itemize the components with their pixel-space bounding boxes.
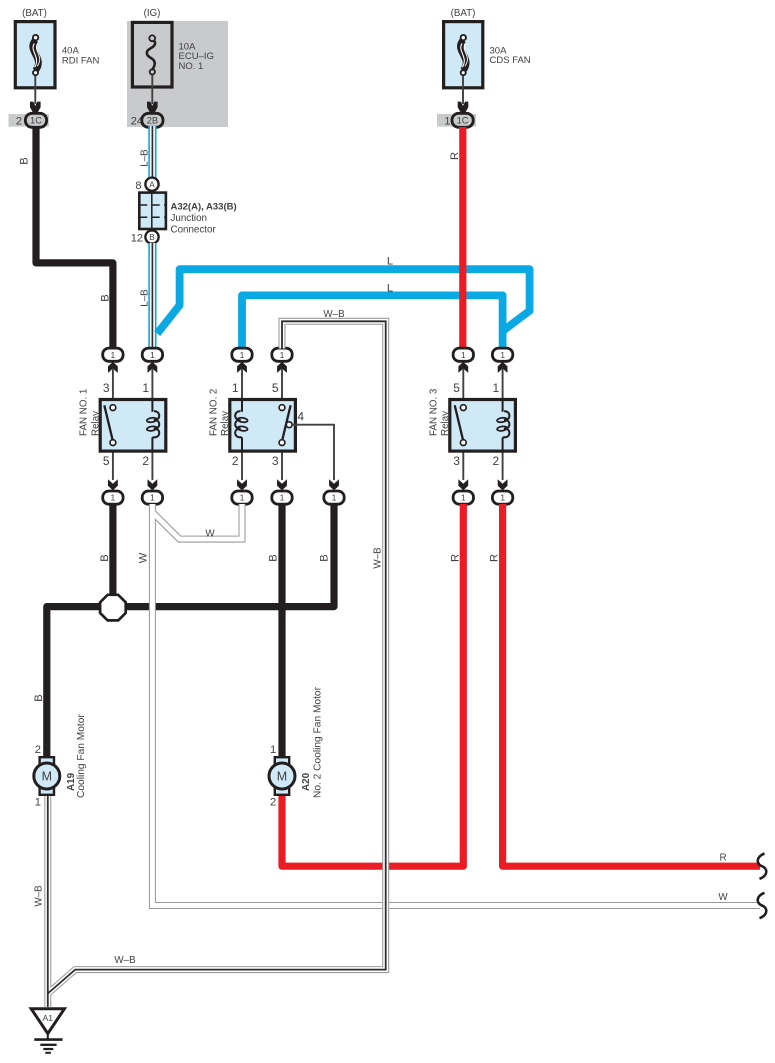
svg-text:CDS FAN: CDS FAN bbox=[490, 55, 531, 66]
svg-text:L: L bbox=[387, 282, 393, 294]
connector 1 below relay2 pin3 bbox=[272, 479, 292, 504]
svg-text:W: W bbox=[205, 529, 215, 540]
svg-text:R: R bbox=[449, 152, 461, 160]
connector 1 above relay2 pin1 bbox=[232, 348, 252, 373]
svg-text:1: 1 bbox=[270, 744, 276, 756]
wire R from CDS FAN connector 1C to FAN NO.3 relay pin 5 bbox=[449, 127, 463, 349]
wire W-B from motor A19 pin 1 to ground A1, joined by W-B loop from FAN NO.2 relay pin 5 bbox=[34, 309, 386, 1007]
svg-text:3: 3 bbox=[453, 454, 460, 468]
svg-text:R: R bbox=[719, 853, 726, 864]
svg-text:1: 1 bbox=[232, 381, 239, 395]
gray panel behind ECU-IG fuse block bbox=[127, 21, 228, 127]
junction connector A32(A), A33(B) bbox=[131, 178, 237, 245]
motor A19 Cooling Fan Motor bbox=[34, 714, 87, 809]
fuse 40A RDI FAN (BAT) bbox=[15, 8, 99, 88]
svg-text:1: 1 bbox=[280, 493, 285, 503]
svg-text:1: 1 bbox=[493, 381, 500, 395]
connector 1 1C (CDS FAN) bbox=[444, 113, 473, 127]
svg-text:M: M bbox=[42, 770, 52, 784]
connector 1 above relay1 pin3 bbox=[103, 348, 123, 373]
connector 1 below relay2 pin2 bbox=[232, 479, 252, 504]
svg-text:1: 1 bbox=[444, 116, 450, 128]
svg-text:Relay: Relay bbox=[91, 411, 102, 436]
svg-text:3: 3 bbox=[103, 381, 110, 395]
svg-text:(BAT): (BAT) bbox=[451, 8, 476, 19]
svg-text:Connector: Connector bbox=[171, 224, 217, 235]
wire from FAN NO.2 relay pin 4 to connector bbox=[292, 409, 334, 480]
svg-text:B: B bbox=[99, 294, 111, 301]
wire B net: relay2 pin 4 connector, across to cooling fan motor A19 bbox=[33, 504, 334, 758]
svg-text:4: 4 bbox=[297, 409, 304, 423]
svg-text:2: 2 bbox=[142, 454, 149, 468]
svg-text:B: B bbox=[319, 554, 331, 561]
svg-text:A: A bbox=[149, 180, 155, 189]
ground A1 bbox=[31, 1009, 64, 1053]
svg-text:1: 1 bbox=[500, 493, 505, 503]
svg-text:1: 1 bbox=[240, 350, 245, 360]
svg-text:1: 1 bbox=[150, 350, 155, 360]
svg-text:B: B bbox=[267, 554, 279, 561]
wire R from motor A20 to FAN NO.3 relay pin 3 bbox=[282, 504, 463, 866]
svg-text:Relay: Relay bbox=[220, 411, 231, 436]
svg-text:5: 5 bbox=[453, 381, 460, 395]
svg-text:L–B: L–B bbox=[139, 289, 150, 307]
svg-text:1: 1 bbox=[461, 350, 466, 360]
connector 1 below relay1 pin5 bbox=[103, 479, 123, 504]
svg-text:1: 1 bbox=[150, 493, 155, 503]
wire R from FAN NO.3 relay pin 2 to right edge bbox=[489, 504, 760, 866]
svg-text:2B: 2B bbox=[147, 115, 158, 125]
motor A20 No.2 Cooling Fan Motor bbox=[269, 686, 324, 808]
svg-text:Relay: Relay bbox=[440, 411, 451, 436]
svg-text:1: 1 bbox=[332, 493, 337, 503]
wire L lower from FAN NO.2 relay pin 1 to FAN NO.3 relay pin 1 bbox=[242, 282, 503, 349]
gray strip behind connector 1C of RDI FAN fuse bbox=[9, 114, 50, 127]
svg-text:2: 2 bbox=[232, 454, 239, 468]
svg-text:W: W bbox=[138, 552, 150, 563]
wire B from FAN NO.2 relay pin 3 to motor A20 bbox=[267, 504, 282, 758]
break mark on wire R bbox=[758, 854, 767, 879]
relay FAN NO.1 bbox=[79, 369, 166, 481]
arrow from fuse 40A to connector 1C bbox=[30, 76, 41, 114]
connector 24 2B (ECU-IG) bbox=[131, 113, 163, 127]
svg-text:B: B bbox=[33, 694, 45, 701]
svg-text:W–B: W–B bbox=[114, 955, 136, 966]
svg-text:5: 5 bbox=[272, 381, 279, 395]
svg-text:2: 2 bbox=[35, 744, 41, 756]
connector 2 1C (RDI FAN) bbox=[16, 113, 47, 127]
gray strip behind connector 1C of CDS FAN fuse bbox=[437, 114, 476, 127]
svg-text:W–B: W–B bbox=[34, 885, 45, 907]
connector 1 above relay3 pin5 bbox=[453, 348, 473, 373]
wire W from FAN NO.1 relay pin 2 down and to right edge, with branch from FAN NO.2 relay pin 2 bbox=[138, 504, 760, 906]
relay FAN NO.3 bbox=[428, 369, 515, 481]
svg-text:1C: 1C bbox=[457, 115, 469, 125]
svg-text:2: 2 bbox=[493, 454, 500, 468]
svg-text:1: 1 bbox=[500, 350, 505, 360]
svg-text:1: 1 bbox=[111, 350, 116, 360]
wire B from fuse 40A connector to FAN NO.1 relay pin 3 bbox=[18, 127, 113, 349]
svg-text:RDI FAN: RDI FAN bbox=[62, 56, 100, 67]
svg-text:FAN NO. 2: FAN NO. 2 bbox=[208, 389, 219, 436]
svg-text:12: 12 bbox=[131, 232, 143, 244]
svg-text:2: 2 bbox=[270, 797, 276, 809]
relay FAN NO.2 bbox=[208, 369, 295, 481]
svg-text:1: 1 bbox=[280, 350, 285, 360]
arrow from fuse 10A to connector 2B bbox=[147, 75, 158, 114]
wire L upper from L-B tap to FAN NO.3 relay pin 1 bbox=[157, 256, 529, 334]
svg-text:A20: A20 bbox=[301, 772, 312, 791]
svg-text:R: R bbox=[489, 554, 501, 562]
svg-text:W–B: W–B bbox=[323, 309, 345, 320]
svg-text:NO. 1: NO. 1 bbox=[179, 61, 204, 72]
svg-text:A32(A), A33(B): A32(A), A33(B) bbox=[171, 201, 237, 212]
splice junction octagon bbox=[100, 595, 126, 621]
connector 1 below relay3 pin2 bbox=[492, 479, 512, 504]
svg-text:B: B bbox=[18, 157, 30, 164]
fuse 30A CDS FAN (BAT) bbox=[444, 8, 531, 88]
svg-text:B: B bbox=[99, 554, 111, 561]
svg-text:(BAT): (BAT) bbox=[22, 8, 47, 19]
svg-text:5: 5 bbox=[103, 454, 110, 468]
svg-text:W–B: W–B bbox=[373, 547, 384, 569]
svg-text:1: 1 bbox=[111, 493, 116, 503]
svg-text:1: 1 bbox=[35, 797, 41, 809]
break mark on wire W bbox=[758, 893, 767, 918]
connector 1 below relay3 pin3 bbox=[453, 479, 473, 504]
svg-text:1: 1 bbox=[240, 493, 245, 503]
svg-text:L: L bbox=[387, 256, 393, 268]
svg-text:L–B: L–B bbox=[139, 149, 150, 167]
connector 1 above relay2 pin5 bbox=[272, 348, 292, 373]
svg-text:R: R bbox=[449, 554, 461, 562]
svg-text:M: M bbox=[277, 770, 287, 784]
svg-text:FAN NO. 3: FAN NO. 3 bbox=[428, 388, 439, 436]
svg-text:1: 1 bbox=[142, 381, 149, 395]
fuse 10A ECU-IG NO.1 (IG) bbox=[132, 8, 213, 87]
arrow from fuse 30A to connector 1C bbox=[458, 76, 469, 114]
svg-text:Cooling Fan Motor: Cooling Fan Motor bbox=[76, 714, 87, 798]
svg-text:FAN NO. 1: FAN NO. 1 bbox=[79, 389, 90, 436]
wire L-B from junction connector pin B to FAN NO.1 relay pin 1 bbox=[139, 243, 152, 349]
connector 1 below relay2 pin4 bbox=[324, 479, 344, 504]
svg-text:3: 3 bbox=[272, 454, 279, 468]
svg-text:1: 1 bbox=[461, 493, 466, 503]
connector 1 below relay1 pin2 bbox=[142, 479, 162, 504]
svg-text:1C: 1C bbox=[30, 115, 42, 125]
svg-text:B: B bbox=[149, 233, 155, 242]
connector 1 above relay1 pin1 bbox=[142, 348, 162, 373]
svg-text:(IG): (IG) bbox=[144, 8, 161, 19]
wire B from FAN NO.1 relay pin 5 to splice junction bbox=[99, 504, 113, 596]
svg-text:W: W bbox=[718, 892, 728, 903]
svg-text:8: 8 bbox=[135, 180, 141, 192]
wire L-B from ECU-IG connector 2B to junction connector pin A bbox=[139, 126, 152, 178]
svg-text:A1: A1 bbox=[43, 1013, 54, 1023]
svg-text:Junction: Junction bbox=[171, 213, 208, 224]
svg-text:2: 2 bbox=[16, 116, 22, 128]
svg-text:No. 2 Cooling Fan Motor: No. 2 Cooling Fan Motor bbox=[313, 686, 324, 798]
connector 1 above relay3 pin1 bbox=[492, 348, 512, 373]
